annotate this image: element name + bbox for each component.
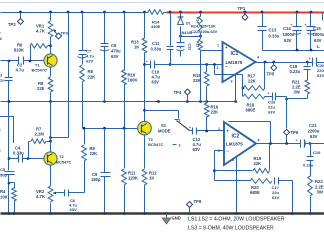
svg-text:0.22u: 0.22u <box>290 69 301 74</box>
node ground bus x292 <box>291 212 294 215</box>
svg-text:2: 2 <box>179 144 181 148</box>
svg-text:D1: D1 <box>186 22 191 26</box>
svg-text:1000u: 1000u <box>313 32 324 37</box>
capacitor C21 <box>296 123 324 148</box>
resistor R10 100K <box>122 70 138 85</box>
svg-text:2.2M: 2.2M <box>35 132 45 137</box>
svg-text:50p: 50p <box>0 173 7 178</box>
wire R13 column to T3 <box>143 53 146 122</box>
wire IC1 fb loop <box>213 63 244 89</box>
svg-text:+: + <box>227 129 230 134</box>
svg-text:BC547C: BC547C <box>56 160 71 165</box>
legend line 2 <box>188 226 274 232</box>
svg-text:C8: C8 <box>111 43 117 48</box>
node red rail x180.5 <box>179 11 182 14</box>
wire C11 column <box>170 13 172 65</box>
node bias rail x104.5 <box>103 100 106 103</box>
wire cut stub left <box>0 117 14 144</box>
svg-text:22E: 22E <box>37 86 45 91</box>
node bias rail x187.4 <box>186 100 189 103</box>
wire R8b column bottom <box>82 83 84 129</box>
capacitor C2 <box>16 57 25 73</box>
transistor T3 <box>138 121 164 147</box>
svg-text:63V: 63V <box>272 195 279 200</box>
wire IC1 +in <box>201 50 223 52</box>
svg-text:C15: C15 <box>313 26 321 31</box>
svg-text:22K: 22K <box>193 78 201 83</box>
wire C17 to bus <box>292 181 294 214</box>
node R24 R25 <box>199 33 202 39</box>
wire T2 collector <box>50 102 52 153</box>
svg-text:+: + <box>296 139 298 143</box>
node ground bus x9 <box>8 212 11 215</box>
resistor R8 22E <box>37 77 53 102</box>
resistor R12 <box>142 169 157 214</box>
svg-text:63V: 63V <box>314 38 322 43</box>
node red rail x311 <box>310 11 313 14</box>
capacitor C15 <box>305 13 324 51</box>
wire C9 column <box>104 129 106 214</box>
resistor R15 <box>193 65 209 102</box>
svg-text:3: 3 <box>0 74 2 78</box>
svg-text:470u: 470u <box>111 49 121 54</box>
transistor T1 <box>32 54 58 73</box>
wire IC2 top corner <box>229 122 271 144</box>
svg-text:+: + <box>291 23 293 27</box>
svg-text:2200u: 2200u <box>308 129 320 134</box>
resistor R9 <box>82 129 97 161</box>
wire IC1 Vee <box>235 75 237 102</box>
svg-text:1: 1 <box>179 119 181 123</box>
testpoint TP4 <box>174 89 191 102</box>
wire R10 column top <box>124 13 126 71</box>
resistor R4 10K <box>0 183 16 214</box>
svg-text:1K: 1K <box>134 45 139 50</box>
wire R25 to bias rail <box>200 51 202 102</box>
resistor R24 <box>196 13 203 33</box>
resistor R19 <box>215 144 270 174</box>
node D1 C22 <box>179 27 200 43</box>
label LS1 cut <box>317 13 323 50</box>
svg-text:+: + <box>305 23 307 27</box>
svg-text:22K: 22K <box>88 75 96 80</box>
svg-text:0.33u: 0.33u <box>269 34 280 39</box>
note R24 R25 values <box>191 24 218 35</box>
testpoint TP2 <box>8 13 24 28</box>
svg-text:C13: C13 <box>269 28 277 33</box>
svg-text:R22: R22 <box>315 179 323 184</box>
wire top rail blue <box>1 12 171 14</box>
capacitor C11 0.33u <box>151 41 174 66</box>
testpoint TP9 <box>187 199 202 214</box>
capacitor C19 <box>303 144 321 168</box>
wire IC1 output <box>256 61 313 64</box>
node bias rail x50.5 <box>49 100 52 103</box>
potentiometer VR2 <box>36 186 57 202</box>
wire T2 emitter <box>50 165 52 187</box>
svg-text:+: + <box>189 126 191 130</box>
wire input line <box>1 60 45 63</box>
wire C10 line <box>145 63 223 66</box>
svg-text:4: 4 <box>258 139 260 143</box>
capacitor C6 <box>57 190 85 213</box>
node bias rail x200.5 <box>199 100 202 103</box>
resistor R20 <box>215 179 273 195</box>
resistor R25 <box>196 39 203 50</box>
svg-text:3W: 3W <box>294 90 300 95</box>
wire T3 base line <box>83 127 138 130</box>
svg-text:C22: C22 <box>188 44 192 51</box>
cut text left top <box>0 26 2 41</box>
node ground bus x104.5 <box>103 212 106 215</box>
node top rail x50.5 <box>49 11 52 14</box>
node red rail x262 <box>261 11 264 14</box>
node ground bus x144.5 <box>143 212 146 215</box>
svg-text:TP4: TP4 <box>174 90 182 95</box>
cut text left mid <box>0 127 1 153</box>
svg-text:430E: 430E <box>151 24 161 29</box>
svg-text:0.33u: 0.33u <box>151 47 162 52</box>
svg-text:3: 3 <box>231 80 233 84</box>
svg-text:63V: 63V <box>193 147 201 152</box>
node ground bus x124 <box>123 212 126 215</box>
svg-text:1K: 1K <box>149 176 154 181</box>
svg-text:TP1: TP1 <box>238 6 246 11</box>
svg-text:1000u: 1000u <box>283 32 295 37</box>
node ground bus x189.5 <box>188 212 191 215</box>
node red rail x170 <box>169 11 172 14</box>
svg-text:−: − <box>227 149 230 154</box>
svg-text:63V: 63V <box>284 38 292 43</box>
node top rail x104.5 <box>103 11 106 14</box>
wire IC2 output <box>257 142 312 145</box>
wire R13 column top <box>144 13 146 39</box>
svg-text:R8: R8 <box>88 69 94 74</box>
wire T1 emitter <box>50 67 52 77</box>
wire R8b column top <box>82 13 84 65</box>
svg-text:BC547C: BC547C <box>32 68 47 73</box>
node top rail x20.5 <box>19 11 22 14</box>
switch S1 MODE <box>158 119 190 148</box>
diode D1 1N4148 <box>178 17 192 35</box>
svg-text:R4: R4 <box>0 189 6 194</box>
svg-text:22K: 22K <box>211 110 219 115</box>
svg-text:R24,R25=10K: R24,R25=10K <box>191 24 216 29</box>
svg-text:C5: C5 <box>0 167 6 172</box>
svg-text:C11: C11 <box>152 41 160 46</box>
resistor R7 <box>29 127 52 159</box>
node red rail x245 <box>244 11 247 14</box>
node red rail x297 <box>296 11 299 14</box>
svg-text:0.33u: 0.33u <box>13 151 24 156</box>
svg-text:3: 3 <box>232 158 234 162</box>
wire IC2 Vee to bus <box>236 157 238 214</box>
svg-text:L: L <box>317 44 320 49</box>
svg-text:63V: 63V <box>152 80 160 85</box>
resistor R22 <box>308 161 324 214</box>
capacitor C8 470u <box>100 43 121 59</box>
wire left column <box>8 61 11 171</box>
svg-text:W: W <box>0 36 2 41</box>
resistor R14 <box>148 10 164 29</box>
svg-text:63V: 63V <box>310 134 318 139</box>
node ground bus x236.5 <box>235 212 238 215</box>
svg-text:810K: 810K <box>14 48 24 53</box>
svg-text:680E: 680E <box>250 190 260 195</box>
capacitor C22 <box>177 43 192 57</box>
svg-text:4.7u: 4.7u <box>16 68 25 73</box>
node ground bus x14 <box>13 212 16 215</box>
ground bus <box>1 212 324 215</box>
node ground bus x310 <box>309 212 312 215</box>
svg-text:C21: C21 <box>309 123 317 128</box>
svg-text:+: + <box>146 60 148 64</box>
op-amp IC1 <box>217 42 260 84</box>
transistor T2 <box>44 152 72 165</box>
svg-text:1: 1 <box>217 44 219 48</box>
wire C16 down to IC2 out <box>285 97 288 144</box>
capacitor C5 150p <box>0 167 15 214</box>
capacitor C17 <box>272 178 293 201</box>
svg-text:LM1875: LM1875 <box>226 142 243 147</box>
node top rail x144.5 <box>143 11 146 14</box>
wire T3 emitter <box>144 135 146 169</box>
svg-text:R24: R24 <box>196 17 200 23</box>
node red rail x200.5 <box>199 11 202 14</box>
potentiometer VR1 <box>36 21 53 37</box>
svg-text:LM1875: LM1875 <box>226 60 243 65</box>
node ground bus x166.5 <box>165 212 168 215</box>
testpoint TP1 <box>238 6 249 20</box>
resistor R16 <box>204 102 218 131</box>
svg-text:C14: C14 <box>283 26 291 31</box>
svg-text:−: − <box>225 64 228 69</box>
svg-text:22K: 22K <box>90 151 98 156</box>
capacitor C16 <box>268 92 287 115</box>
svg-text:680E: 680E <box>246 108 256 113</box>
svg-text:TP3: TP3 <box>61 31 69 36</box>
svg-text:LS3 = 8-OHM, 40W LOUDSPEAKER: LS3 = 8-OHM, 40W LOUDSPEAKER <box>188 226 274 232</box>
svg-text:TP5: TP5 <box>267 72 275 77</box>
svg-text:120K: 120K <box>128 176 138 181</box>
capacitor C20 <box>309 57 324 78</box>
svg-text:T2: T2 <box>59 154 64 159</box>
testpoint TP6 <box>284 129 299 135</box>
svg-text:4.7K: 4.7K <box>36 194 45 199</box>
wire S1 from T3 collector <box>145 111 179 119</box>
svg-text:TP6: TP6 <box>291 130 299 135</box>
wire VR1 bottom to T1 <box>49 37 52 55</box>
svg-text:+: + <box>309 57 311 61</box>
svg-text:+: + <box>268 92 270 96</box>
svg-text:K: K <box>0 148 1 153</box>
svg-text:C19: C19 <box>313 150 321 155</box>
testpoint TP5 <box>267 63 277 77</box>
wire D1 column <box>180 13 182 17</box>
capacitor C3 (cut at edge) <box>0 74 13 83</box>
capacitor C10 <box>146 60 160 85</box>
svg-text:C22=100u,63V: C22=100u,63V <box>191 29 218 34</box>
svg-text:2u: 2u <box>0 79 5 83</box>
svg-text:10K: 10K <box>0 195 8 200</box>
svg-text:2: 2 <box>217 66 219 70</box>
wire VR1 top <box>50 13 52 21</box>
resistor R13 1K <box>131 38 147 53</box>
border frame top line <box>1 2 324 4</box>
wire IC2 -in loop <box>213 151 225 181</box>
svg-text:4: 4 <box>257 56 259 60</box>
svg-text:22K: 22K <box>248 79 256 84</box>
resistor R11 <box>122 129 138 214</box>
svg-text:1: 1 <box>218 127 220 131</box>
node top rail x82 <box>81 11 84 14</box>
capacitor C9 150p <box>91 172 111 182</box>
svg-text:0.22u: 0.22u <box>303 163 314 168</box>
node bias rail x9 <box>8 100 11 103</box>
node top rail x68 <box>67 11 70 14</box>
node ground bus x50.5 <box>49 212 52 215</box>
wire bias rail <box>1 101 237 103</box>
capacitor C12 <box>189 126 225 153</box>
wire supply return line <box>263 49 324 52</box>
svg-text:IC1: IC1 <box>231 51 239 57</box>
svg-text:MODE: MODE <box>158 129 171 134</box>
capacitor C13 <box>258 13 280 51</box>
capacitor C4 <box>13 146 24 163</box>
svg-text:63V: 63V <box>317 73 324 78</box>
op-amp IC2 <box>218 122 260 165</box>
capacitor C7 <box>78 49 95 64</box>
svg-text:GND: GND <box>172 216 181 221</box>
node bias rail x235.7 <box>234 100 237 103</box>
svg-text:TP2: TP2 <box>8 22 16 27</box>
wire top rail red +V <box>167 12 324 14</box>
svg-text:4.7K: 4.7K <box>36 29 45 34</box>
svg-text:TP9: TP9 <box>194 199 202 204</box>
svg-text:63V: 63V <box>86 59 93 64</box>
svg-text:63V: 63V <box>70 207 77 212</box>
svg-text:+: + <box>225 45 228 50</box>
legend line 1 <box>188 217 285 223</box>
resistor R6 <box>14 43 51 61</box>
svg-text:IC2: IC2 <box>232 134 240 140</box>
wire C8 column <box>104 13 106 102</box>
svg-text:150p: 150p <box>91 177 101 182</box>
svg-text:22K: 22K <box>254 161 262 166</box>
resistor R17 <box>243 63 265 91</box>
wire C6 riser <box>84 161 86 193</box>
svg-text:S1: S1 <box>161 123 167 128</box>
wire R21 to node <box>287 95 308 99</box>
wire plain column x68 <box>49 13 68 139</box>
wire R10 column bottom <box>124 85 126 129</box>
ground symbol <box>162 214 181 225</box>
svg-text:LS1,LS2 = 4-OHM, 20W LOUDSPEAK: LS1,LS2 = 4-OHM, 20W LOUDSPEAKER <box>188 217 285 223</box>
node bias rail x206.7 <box>205 100 208 103</box>
capacitor C18 <box>290 63 311 75</box>
svg-text:BC547C: BC547C <box>148 142 163 147</box>
node bias rail x158.5 <box>157 100 160 103</box>
testpoint TP3 <box>53 30 68 39</box>
wire VR2 to bus <box>50 203 52 214</box>
wire T2 base line <box>9 157 45 160</box>
resistor R21 <box>292 70 310 95</box>
svg-text:63V: 63V <box>268 110 275 115</box>
svg-text:3W: 3W <box>317 190 323 195</box>
node top rail x124 <box>123 11 126 14</box>
resistor R8b 22K <box>80 65 95 82</box>
svg-text:100K: 100K <box>128 78 138 83</box>
svg-text:K: K <box>0 127 1 132</box>
svg-text:R25: R25 <box>196 41 200 47</box>
svg-text:63V: 63V <box>111 54 119 59</box>
capacitor C14 <box>283 13 302 51</box>
resistor R18 <box>243 89 273 113</box>
